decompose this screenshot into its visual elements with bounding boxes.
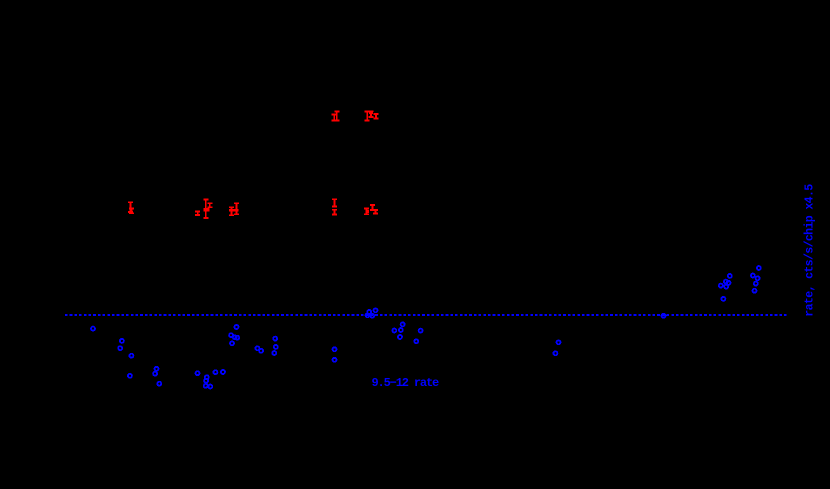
svg-text:rate, cts/s/chip x4.5: rate, cts/s/chip x4.5 (804, 184, 817, 317)
svg-text:9.5−12 rate: 9.5−12 rate (372, 376, 440, 390)
